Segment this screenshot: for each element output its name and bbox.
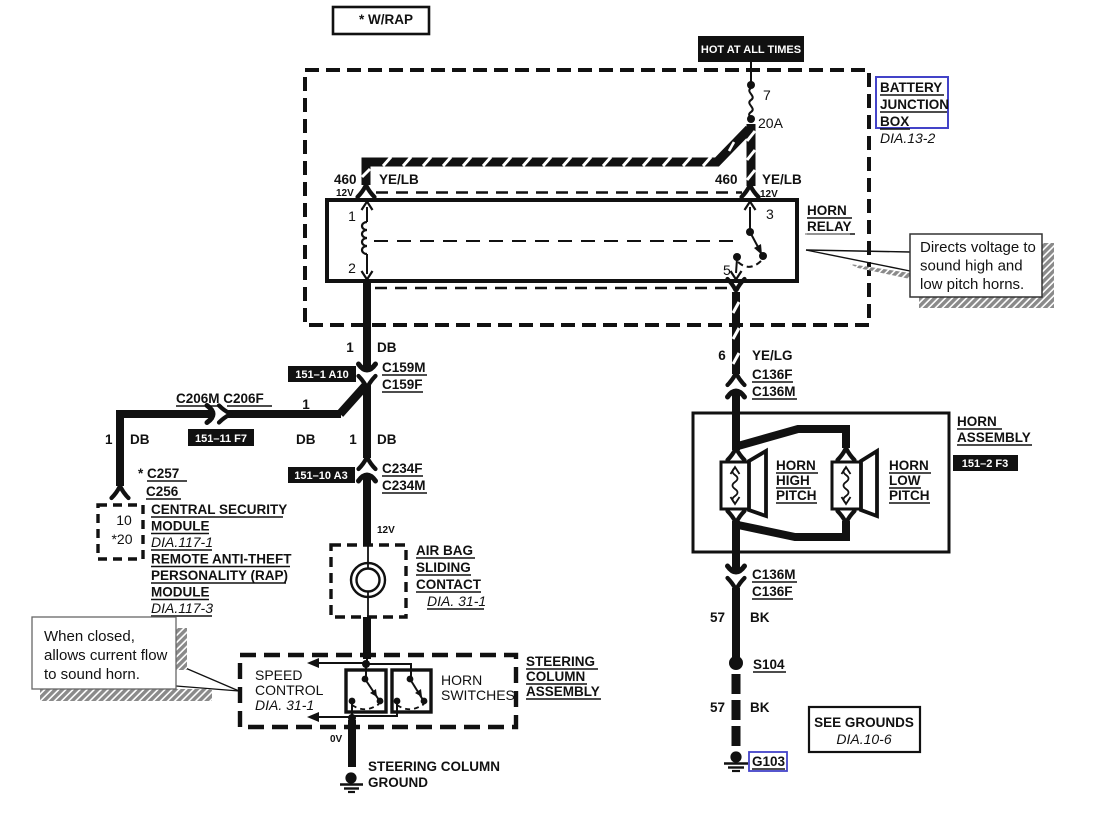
svg-text:1: 1 xyxy=(349,432,357,447)
connector C234F C234M xyxy=(359,458,376,481)
svg-text:BOX: BOX xyxy=(880,114,909,129)
label box 151-2 F3 xyxy=(953,455,1018,471)
svg-text:Directs voltage to: Directs voltage to xyxy=(920,239,1036,256)
relay coil pins 1-2 xyxy=(348,202,372,280)
svg-text:151–2 F3: 151–2 F3 xyxy=(962,458,1008,470)
label HORN LOW PITCH xyxy=(889,458,931,503)
label STEERING COLUMN ASSEMBLY xyxy=(526,654,601,699)
svg-text:151–10 A3: 151–10 A3 xyxy=(294,470,347,482)
svg-text:MODULE: MODULE xyxy=(151,585,210,600)
wire C136 into horn assembly xyxy=(732,391,740,450)
svg-text:ASSEMBLY: ASSEMBLY xyxy=(526,684,600,699)
label C159M C159F xyxy=(382,360,427,392)
air bag sliding contact box (dashed) xyxy=(331,545,406,617)
wire air bag to steering column xyxy=(363,617,371,659)
svg-text:0V: 0V xyxy=(330,734,343,745)
label box 151-11 F7 xyxy=(188,429,254,446)
svg-text:HORN: HORN xyxy=(807,203,847,218)
wire label 57 BK xyxy=(710,610,770,625)
svg-text:sound high and: sound high and xyxy=(920,258,1023,275)
svg-text:STEERING: STEERING xyxy=(526,654,595,669)
dashed line above relay xyxy=(376,191,742,194)
svg-text:JUNCTION: JUNCTION xyxy=(880,97,949,112)
branch wire from horn low bottom xyxy=(738,521,846,537)
callout: when closed xyxy=(32,617,239,701)
svg-text:RELAY: RELAY xyxy=(807,219,852,234)
svg-text:DIA.13-2: DIA.13-2 xyxy=(880,130,935,146)
svg-text:C136F: C136F xyxy=(752,584,793,599)
connector C159M C159F xyxy=(359,364,376,387)
svg-text:1: 1 xyxy=(105,432,113,447)
label HOT AT ALL TIMES xyxy=(698,36,804,62)
svg-text:allows current flow: allows current flow xyxy=(44,647,168,664)
steering column assembly box (dashed) xyxy=(240,655,516,727)
connector C136M C136F lower xyxy=(728,566,745,589)
svg-text:1: 1 xyxy=(346,340,354,355)
relay 12V labels xyxy=(336,188,354,199)
wire relay pin 2 to C159 xyxy=(363,282,371,370)
wire to second switch xyxy=(366,664,411,678)
connector C206M C206F xyxy=(207,406,230,423)
horn relay box xyxy=(327,200,797,281)
svg-text:ASSEMBLY: ASSEMBLY xyxy=(957,430,1031,445)
see grounds box xyxy=(809,707,920,752)
svg-text:MODULE: MODULE xyxy=(151,519,210,534)
svg-text:C159M: C159M xyxy=(382,360,426,375)
svg-text:6: 6 xyxy=(718,348,726,363)
wire C136 to S104 xyxy=(732,588,740,658)
wire from hot feed xyxy=(750,62,752,86)
wire horn assembly down to C136M xyxy=(732,521,740,572)
label HORN HIGH PITCH xyxy=(776,458,818,503)
svg-text:SLIDING: SLIDING xyxy=(416,560,471,575)
svg-text:151–11 F7: 151–11 F7 xyxy=(195,433,247,445)
connector fork at relay pin 3 top xyxy=(742,186,759,197)
svg-text:HORN: HORN xyxy=(889,458,929,473)
wire label 460 YE/LB 12V right xyxy=(715,172,802,200)
ground steering column xyxy=(340,772,363,792)
svg-text:20A: 20A xyxy=(758,115,784,131)
svg-text:REMOTE ANTI-THEFT: REMOTE ANTI-THEFT xyxy=(151,552,292,567)
svg-text:C234F: C234F xyxy=(382,461,423,476)
svg-text:12V: 12V xyxy=(336,188,354,199)
svg-text:DIA.117-1: DIA.117-1 xyxy=(151,534,213,550)
label C206M C206F xyxy=(176,391,272,406)
svg-text:DB: DB xyxy=(377,432,397,447)
splice S104 xyxy=(729,656,786,672)
horn high pitch xyxy=(721,451,766,516)
svg-text:DB: DB xyxy=(130,432,150,447)
svg-text:CENTRAL SECURITY: CENTRAL SECURITY xyxy=(151,502,287,517)
svg-text:3: 3 xyxy=(766,206,774,222)
label HORN ASSEMBLY xyxy=(957,414,1032,445)
svg-text:*20: *20 xyxy=(111,531,132,547)
svg-text:C256: C256 xyxy=(146,484,179,499)
label box 151-10 A3 xyxy=(288,467,355,483)
label BATTERY JUNCTION BOX xyxy=(876,77,949,146)
striped wire 460 YE/LB vertical to relay pin 3 xyxy=(747,124,755,186)
svg-text:BK: BK xyxy=(750,610,770,625)
horn assembly box xyxy=(693,413,949,552)
dashed line below relay xyxy=(375,287,729,290)
svg-text:G103: G103 xyxy=(752,754,786,769)
svg-text:BATTERY: BATTERY xyxy=(880,80,942,95)
connector fork C257 end xyxy=(112,487,129,498)
svg-text:to sound horn.: to sound horn. xyxy=(44,666,140,683)
svg-text:COLUMN: COLUMN xyxy=(526,669,585,684)
svg-text:YE/LB: YE/LB xyxy=(379,172,419,187)
arrow to speed control lower xyxy=(307,712,352,722)
svg-text:C234M: C234M xyxy=(382,478,426,493)
label C136M C136F lower xyxy=(752,567,797,599)
connector fork horn low bottom xyxy=(838,511,855,522)
svg-text:1: 1 xyxy=(302,397,310,412)
svg-text:DIA.117-3: DIA.117-3 xyxy=(151,600,213,616)
svg-text:C206M C206F: C206M C206F xyxy=(176,391,264,406)
callout: directs voltage xyxy=(805,234,1054,308)
label G103 xyxy=(749,752,787,771)
svg-text:PITCH: PITCH xyxy=(776,488,817,503)
svg-text:DIA. 31-1: DIA. 31-1 xyxy=(255,697,314,713)
wires below switches xyxy=(348,701,397,722)
svg-text:460: 460 xyxy=(334,172,357,187)
connector fork horn high top xyxy=(728,449,745,460)
svg-text:BK: BK xyxy=(750,700,770,715)
svg-text:1: 1 xyxy=(348,208,356,224)
label HORN SWITCHES xyxy=(441,672,515,703)
wire C159 to C234 xyxy=(363,385,371,458)
wire label 57 BK lower xyxy=(710,700,770,715)
connector C136F C136M xyxy=(728,374,745,397)
node below fuse xyxy=(747,115,755,123)
air bag sliding contact coil xyxy=(351,546,385,616)
label central security module / RAP module xyxy=(151,502,292,616)
svg-text:DB: DB xyxy=(296,432,316,447)
svg-text:YE/LB: YE/LB xyxy=(762,172,802,187)
branch wire to C206 xyxy=(120,385,366,486)
svg-text:460: 460 xyxy=(715,172,738,187)
horn low pitch xyxy=(832,451,877,516)
svg-text:57: 57 xyxy=(710,700,725,715)
label C234F C234M xyxy=(382,461,427,493)
svg-text:7: 7 xyxy=(763,87,771,103)
svg-text:5: 5 xyxy=(723,262,731,278)
wire to steering column ground xyxy=(348,720,356,767)
wire label 460 12V YE/LB left xyxy=(334,172,419,187)
svg-text:HOT AT ALL TIMES: HOT AT ALL TIMES xyxy=(701,44,801,56)
horn switch 2 xyxy=(392,670,431,712)
battery junction box (dashed) xyxy=(305,70,869,325)
relay switch pins 3-5 xyxy=(723,202,774,280)
label SPEED CONTROL xyxy=(255,667,324,713)
svg-text:LOW: LOW xyxy=(889,473,921,488)
fuse 7 20A xyxy=(749,87,783,131)
striped wire 460 YE/LB branch to relay pin 1 xyxy=(362,129,749,185)
svg-text:When closed,: When closed, xyxy=(44,628,135,645)
dashed wire to G103 xyxy=(732,674,741,748)
horn switch 1 xyxy=(346,670,386,712)
svg-text:HORN: HORN xyxy=(776,458,816,473)
svg-text:CONTROL: CONTROL xyxy=(255,682,324,698)
svg-text:SPEED: SPEED xyxy=(255,667,302,683)
wire junction into switches xyxy=(362,658,370,678)
svg-text:GROUND: GROUND xyxy=(368,775,428,790)
label C257 C256 xyxy=(138,466,187,499)
svg-text:SWITCHES: SWITCHES xyxy=(441,687,515,703)
svg-text:57: 57 xyxy=(710,610,725,625)
svg-text:12V: 12V xyxy=(377,525,395,536)
svg-text:C136F: C136F xyxy=(752,367,793,382)
svg-text:* W/RAP: * W/RAP xyxy=(359,12,413,27)
svg-text:C136M: C136M xyxy=(752,384,796,399)
svg-text:C136M: C136M xyxy=(752,567,796,582)
svg-text:HORN: HORN xyxy=(441,672,482,688)
note box W/RAP xyxy=(333,7,429,34)
svg-text:PERSONALITY (RAP): PERSONALITY (RAP) xyxy=(151,568,288,583)
label C136F C136M xyxy=(752,367,797,399)
striped wire 6 YE/LG xyxy=(733,292,739,374)
svg-text:YE/LG: YE/LG xyxy=(752,348,793,363)
svg-text:C159F: C159F xyxy=(382,377,423,392)
central security module box (dashed) xyxy=(98,505,143,559)
svg-text:CONTACT: CONTACT xyxy=(416,577,482,592)
svg-text:HORN: HORN xyxy=(957,414,997,429)
connector fork horn low top xyxy=(838,449,855,460)
svg-text:AIR BAG: AIR BAG xyxy=(416,543,473,558)
svg-text:low pitch horns.: low pitch horns. xyxy=(920,276,1024,293)
svg-text:* C257: * C257 xyxy=(138,466,179,481)
svg-text:10: 10 xyxy=(116,512,132,528)
label HORN RELAY xyxy=(807,203,855,234)
ground G103 xyxy=(724,751,748,771)
connector fork horn high bottom xyxy=(728,511,745,522)
wire label 1 DB xyxy=(346,340,397,355)
svg-text:S104: S104 xyxy=(753,657,785,672)
connector fork below relay pin 5 xyxy=(728,279,745,290)
label STEERING COLUMN GROUND xyxy=(368,759,500,790)
arrow to speed control upper xyxy=(307,658,366,668)
svg-text:DB: DB xyxy=(377,340,397,355)
svg-text:STEERING COLUMN: STEERING COLUMN xyxy=(368,759,500,774)
svg-text:PITCH: PITCH xyxy=(889,488,930,503)
wire C234 to air bag contact xyxy=(363,477,371,544)
svg-text:DIA.10-6: DIA.10-6 xyxy=(836,731,891,747)
wire label 1 DB main xyxy=(349,432,397,447)
svg-text:SEE GROUNDS: SEE GROUNDS xyxy=(814,715,914,730)
relay linkage dashed xyxy=(374,240,741,242)
node above fuse xyxy=(747,81,755,89)
svg-text:DIA. 31-1: DIA. 31-1 xyxy=(427,593,486,609)
label AIR BAG SLIDING CONTACT xyxy=(416,543,486,609)
connector fork at relay pin 1 top xyxy=(358,186,375,197)
svg-text:HIGH: HIGH xyxy=(776,473,810,488)
svg-text:151–1 A10: 151–1 A10 xyxy=(295,369,348,381)
label box 151-1 A10 xyxy=(288,366,356,382)
branch wire to horn low pitch top xyxy=(738,429,846,448)
wire label 1 DB left branch xyxy=(105,432,150,447)
wire label 6 YE/LG xyxy=(718,348,792,363)
svg-text:2: 2 xyxy=(348,260,356,276)
